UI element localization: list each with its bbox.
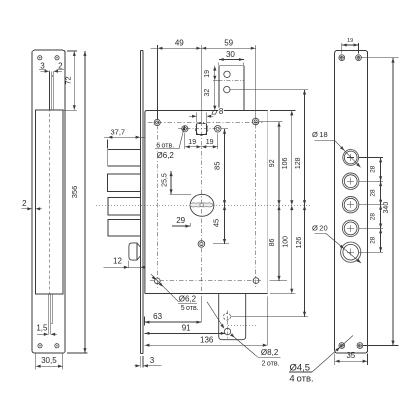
tab hole centerline vertical — [226, 311, 228, 339]
dimension 30,5 (faceplate width) — [35, 354, 37, 370]
latch bolt (middle view) — [129, 243, 141, 260]
svg-text:92: 92 — [269, 159, 276, 167]
svg-text:Ø 20: Ø 20 — [312, 223, 328, 232]
svg-text:28: 28 — [370, 236, 377, 244]
dimension 37,7 (bolt pins protrusion) — [107, 140, 109, 149]
faceplate outer plate (left view) — [32, 50, 65, 353]
case top hole 4 — [252, 118, 259, 125]
faceplate screw hole bottom-left — [38, 344, 42, 348]
hole row centerline through follower (dashed) — [178, 128, 224, 130]
svg-text:86: 86 — [269, 239, 276, 247]
faceplate edge strip (middle view) — [139, 51, 141, 354]
svg-text:128: 128 — [295, 157, 302, 169]
svg-text:126: 126 — [296, 237, 303, 249]
dimension 356 (left view) — [67, 352, 88, 354]
dimension 19 (escutcheon, vertical) — [214, 66, 216, 81]
svg-text:106: 106 — [282, 157, 289, 169]
bolt pin 3 (middle) — [108, 197, 141, 215]
svg-text:19: 19 — [347, 38, 353, 44]
dimension 32 (escutcheon to case top, vertical) — [214, 81, 216, 111]
faceplate screw hole top-right — [55, 56, 59, 60]
dimension 3 (left view top) — [41, 70, 49, 72]
tab solid hole — [224, 328, 230, 334]
svg-text:12: 12 — [113, 257, 122, 266]
plate hole 3 — [342, 197, 358, 213]
svg-text:356: 356 — [70, 186, 79, 199]
plate screw hole bottom-right — [357, 343, 363, 349]
svg-text:85: 85 — [212, 162, 221, 170]
back plate outline — [335, 51, 368, 353]
case top hole 1 — [154, 119, 160, 125]
dimension 25,5 — [169, 193, 191, 195]
dimension 2 (left view top) — [54, 70, 62, 72]
dimension 72 (left view) — [67, 50, 77, 52]
follower square — [197, 124, 207, 135]
svg-text:Ø 18: Ø 18 — [312, 130, 328, 139]
cylinder escutcheon plate (top) — [219, 66, 244, 111]
tab dashed hole — [224, 313, 231, 320]
svg-text:100: 100 — [283, 236, 290, 248]
bottom holes centerline (dashed) — [150, 280, 262, 282]
svg-text:37,7: 37,7 — [110, 127, 125, 136]
svg-text:Ø8,2: Ø8,2 — [261, 348, 279, 357]
hole centerline horizontal upper (dashed) — [148, 121, 263, 123]
svg-text:4 отв.: 4 отв. — [289, 374, 313, 385]
svg-text:2 отв.: 2 отв. — [262, 360, 280, 367]
svg-text:30,5: 30,5 — [41, 356, 57, 365]
latch stem lower (lines) — [48, 294, 50, 334]
plate screw hole top-right — [356, 55, 362, 61]
lower-left leader diameter 6,2 5 otv. — [151, 274, 179, 302]
svg-text:28: 28 — [370, 189, 377, 197]
plate screw hole bottom-left — [339, 343, 345, 349]
dimension 91 — [145, 332, 226, 334]
escutcheon upper hole — [224, 71, 230, 77]
dimension 340 — [362, 57, 399, 59]
dimension 136 — [267, 297, 269, 346]
dimension 12 (latch protrusion) — [127, 261, 129, 268]
keyhole vertical centerline (dashed) — [200, 112, 202, 296]
svg-text:72: 72 — [64, 76, 73, 84]
hole column centerline right (dashed) — [255, 115, 257, 289]
follower circle (dashed) — [195, 123, 208, 136]
svg-text:29: 29 — [176, 216, 185, 225]
dimension 19 (plate top) — [341, 43, 343, 54]
bottom tab with holes — [219, 294, 246, 340]
plate hole 5 (d20) — [341, 242, 361, 262]
dimension 63 — [144, 317, 146, 326]
leader diameter 8,2 2 otv. — [207, 302, 224, 328]
faceplate screw hole top-left — [38, 56, 42, 60]
svg-text:136: 136 — [200, 336, 214, 345]
keyhole ellipse — [190, 194, 214, 216]
dimension 3 (faceplate thickness bottom) — [139, 356, 141, 368]
svg-text:28: 28 — [370, 165, 377, 173]
svg-text:340: 340 — [383, 202, 390, 214]
plate hole 2 — [343, 173, 359, 189]
svg-text:59: 59 — [224, 39, 233, 48]
escutcheon lower hole — [224, 86, 230, 92]
dimension 2 faceplate thickness — [21, 208, 31, 210]
keyway slot profile — [190, 203, 213, 207]
svg-text:49: 49 — [175, 39, 184, 48]
dimension 128 / 126 line — [230, 89, 308, 91]
dimension 29 — [189, 223, 191, 227]
dimension 28 chain — [359, 157, 383, 159]
svg-text:Ø6,2: Ø6,2 — [179, 294, 197, 303]
faceplate inner cutout rectangle — [36, 110, 63, 294]
svg-text:25,5: 25,5 — [161, 173, 168, 187]
case bottom hole left — [154, 278, 160, 284]
svg-text:5 отв.: 5 отв. — [181, 305, 199, 312]
hole below keyhole — [198, 241, 205, 248]
svg-text:6 отв.: 6 отв. — [156, 143, 174, 150]
svg-text:35: 35 — [346, 351, 355, 360]
square 8 label (spindle) — [212, 111, 217, 115]
svg-text:19: 19 — [206, 139, 214, 146]
dimension 8 arrows (follower square width) — [196, 113, 198, 123]
faceplate vertical centerline (dashed) — [48, 71, 50, 295]
svg-text:Ø6,2: Ø6,2 — [157, 151, 175, 160]
svg-text:1,5: 1,5 — [36, 324, 48, 333]
bolt pin 2 — [108, 174, 141, 191]
svg-text:3: 3 — [40, 62, 45, 71]
plate screw hole top-left — [339, 55, 345, 61]
svg-text:8: 8 — [219, 107, 224, 116]
svg-text:32: 32 — [204, 89, 211, 97]
dimension 85 / 45 line — [221, 128, 228, 130]
hole column centerline left (dashed) — [156, 116, 158, 289]
dimension 92 / 86 line — [259, 121, 283, 123]
svg-text:28: 28 — [370, 213, 377, 221]
svg-text:45: 45 — [212, 219, 221, 227]
svg-text:2: 2 — [22, 199, 27, 208]
plate hole 1 (d18) — [343, 150, 359, 166]
bolt pins horizontal centerline (dotted) — [96, 204, 312, 206]
svg-text:91: 91 — [182, 324, 191, 333]
case bottom hole right — [253, 278, 259, 284]
svg-text:3: 3 — [150, 356, 155, 365]
dimension 1,5 (latch stem) — [37, 333, 48, 335]
dimension 49 — [157, 45, 159, 119]
bolt pin 1 (top) — [108, 149, 141, 166]
svg-text:2: 2 — [58, 61, 63, 70]
dimension 19 19 (holes to follower) — [184, 133, 186, 149]
escutcheon center dash line — [218, 80, 244, 82]
plate hole 4 — [342, 220, 358, 236]
svg-text:30: 30 — [226, 50, 235, 59]
faceplate screw hole bottom-right — [55, 344, 59, 348]
lock case body outline — [145, 111, 268, 294]
svg-text:19: 19 — [188, 139, 196, 146]
svg-text:19: 19 — [204, 70, 211, 78]
case top hole 2 (6 otv.) — [182, 126, 188, 132]
case top hole 3 — [214, 126, 221, 133]
svg-text:63: 63 — [153, 312, 162, 321]
bolt pin 4 — [108, 219, 140, 236]
dimension 30 (escutcheon width) — [218, 63, 220, 66]
dimension 106 / 100 line — [270, 110, 296, 112]
dimension 59 — [201, 47, 255, 49]
dimension 35 (plate width) — [334, 354, 336, 366]
deadbolt stem upper (lines) — [48, 71, 50, 110]
